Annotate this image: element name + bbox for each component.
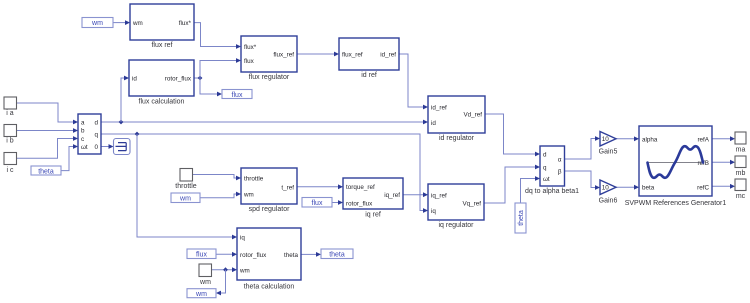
svg-text:Vq_ref: Vq_ref [462,201,481,208]
svg-text:iq_ref: iq_ref [384,192,400,199]
svg-text:id ref: id ref [361,72,377,79]
svg-text:ma: ma [736,147,746,154]
svg-text:id_ref: id_ref [380,52,396,59]
wire theta tag to input wt [61,147,74,171]
input port i b [4,125,17,145]
wire Vd_ref to dq to alpha beta d [485,114,536,154]
block iq ref [343,178,403,219]
tag flux from mid [302,198,332,208]
block flux regulator [241,36,297,81]
svg-text:theta: theta [329,252,345,259]
wire wm branch down to wm goto [220,270,226,293]
output port mb [735,156,746,177]
svg-text:c: c [81,136,84,143]
node wm junction [223,267,228,272]
svg-text:beta: beta [642,185,655,192]
svg-text:10: 10 [602,185,610,192]
tag wm from mid [171,193,200,203]
svg-text:alpha: alpha [642,137,658,144]
input port throttle [175,169,197,191]
wire i a to input a [17,103,75,122]
svg-text:flux: flux [232,92,243,99]
svg-text:Gain5: Gain5 [599,149,618,156]
wire d output to id regulator id [101,121,424,123]
svg-text:flux: flux [244,58,255,65]
wire flux* to flux regulator flux* [194,23,237,47]
svg-text:q: q [94,132,98,139]
svg-text:iq ref: iq ref [365,212,381,219]
svg-text:wm: wm [132,20,143,27]
svg-text:i b: i b [6,138,14,145]
svg-text:b: b [81,128,85,135]
svg-text:d: d [94,120,98,127]
svg-text:a: a [81,120,85,127]
svg-text:wm: wm [195,291,207,298]
svg-text:wm: wm [199,279,211,286]
wire i b to input b [17,130,75,132]
wire 0 output to terminator [101,146,110,148]
svg-text:throttle: throttle [244,176,264,183]
block iq regulator [428,184,484,229]
svg-text:Vd_ref: Vd_ref [463,112,482,119]
input port i c [4,153,17,175]
wire theta out to theta goto [301,253,317,255]
wire flux tag to theta calculation rotor_flux [216,253,233,255]
svg-text:10: 10 [602,136,610,143]
node q junction [135,132,140,137]
svg-text:t_ref: t_ref [281,185,294,192]
input port i a [4,97,17,117]
gain Gain6 [599,180,618,205]
wire wm tag to flux ref [113,22,126,24]
svg-text:i a: i a [6,110,14,117]
svg-text:flux*: flux* [179,20,192,27]
node rotor_flux junction [198,76,203,81]
wire flux tag to iq ref rotor_flux [332,202,339,204]
svg-text:wm: wm [179,196,191,203]
block id regulator [428,96,485,142]
wire id_ref to id regulator id_ref [399,54,424,107]
svg-text:flux: flux [312,200,323,207]
terminator [114,139,131,155]
svg-text:iq: iq [431,208,436,215]
svg-text:i c: i c [7,167,15,174]
wire refA to ma [712,138,731,140]
tag theta from vertical [515,203,526,233]
input port wm [199,264,212,286]
svg-text:theta: theta [38,168,54,175]
wire refC to mc [712,185,731,187]
svg-text:refC: refC [697,185,709,192]
block flux ref [130,4,194,49]
output port ma [735,132,746,154]
tag wm from top [82,18,113,28]
svg-text:id: id [431,120,436,127]
svg-text:id: id [132,76,137,83]
wire d branch up to flux calculation id [121,78,125,122]
wire Gain5 to SVPWM alpha [616,138,635,140]
svg-text:id_ref: id_ref [431,105,447,112]
wire iq_ref to iq regulator iq_ref [403,194,424,196]
tag theta from left [31,166,61,175]
svg-text:mc: mc [736,193,746,200]
svg-text:dq to alpha beta1: dq to alpha beta1 [525,188,579,195]
svg-text:q: q [543,165,547,172]
wire rotor_flux output [194,77,200,79]
wire throttle to spd regulator [193,175,238,179]
svg-text:flux: flux [196,252,207,259]
wire t_ref to iq ref torque_ref [297,186,339,188]
svg-text:theta calculation: theta calculation [244,284,295,291]
svg-text:mb: mb [736,170,746,177]
svg-text:wm: wm [91,20,103,27]
svg-text:torque_ref: torque_ref [346,184,375,191]
node d junction [119,120,124,125]
svg-text:SVPWM References Generator1: SVPWM References Generator1 [625,200,727,207]
output port mc [735,179,746,200]
wire theta vertical tag to wt [521,179,537,204]
wire rotor_flux branch down to flux goto [200,78,218,94]
block abc to dq0 [78,114,101,154]
svg-text:ωt: ωt [81,144,88,151]
block id ref [339,38,399,79]
block SVPWM References Generator1 [625,126,727,207]
wire beta out to Gain6 [565,171,597,188]
svg-text:rotor_flux: rotor_flux [165,76,192,83]
wire Gain6 to SVPWM beta [616,186,635,188]
block flux calculation [129,60,194,106]
tag theta goto [321,249,353,259]
svg-text:β: β [558,169,562,176]
gain Gain5 [599,132,618,156]
svg-text:spd regulator: spd regulator [249,206,291,213]
svg-text:iq: iq [240,235,245,242]
wire flux_ref to id ref [297,53,335,55]
wire wm tag to spd regulator wm [200,194,237,198]
svg-text:wm: wm [243,192,254,199]
tag flux goto [222,90,252,99]
block spd regulator [241,168,297,213]
svg-text:ωt: ωt [543,176,550,183]
svg-text:throttle: throttle [175,183,197,190]
svg-text:rotor_flux: rotor_flux [346,201,373,208]
svg-text:flux regulator: flux regulator [249,74,290,81]
tag wm goto [187,289,216,298]
wire alpha out to Gain5 [565,139,597,160]
svg-text:0: 0 [94,144,98,151]
svg-text:iq regulator: iq regulator [438,222,474,229]
svg-text:theta: theta [284,252,299,259]
svg-text:flux*: flux* [244,44,257,51]
wire q output to iq regulator iq [101,134,424,211]
svg-text:flux calculation: flux calculation [139,99,185,106]
svg-text:iq_ref: iq_ref [431,193,447,200]
svg-text:flux_ref: flux_ref [273,52,294,59]
svg-text:refA: refA [697,137,709,144]
wire i c to input c [17,139,75,159]
wire rotor_flux branch up to flux regulator flux [200,61,237,79]
wire wm port to theta calculation wm [212,269,233,271]
svg-text:wm: wm [239,268,250,275]
svg-text:flux_ref: flux_ref [342,52,363,59]
svg-text:α: α [558,157,562,164]
wire refB to mb [712,161,731,163]
svg-text:Gain6: Gain6 [599,198,618,205]
svg-text:id regulator: id regulator [439,135,475,142]
wire Vq_ref to dq to alpha beta q [484,167,536,203]
wire q branch down to theta calculation iq [137,134,233,237]
block theta calculation [237,228,301,291]
svg-text:rotor_flux: rotor_flux [240,252,267,259]
block dq to alpha beta1 [525,146,579,195]
svg-text:flux ref: flux ref [151,42,172,49]
svg-text:d: d [543,152,547,159]
svg-text:theta: theta [518,210,525,226]
tag flux from bottom [187,249,216,259]
